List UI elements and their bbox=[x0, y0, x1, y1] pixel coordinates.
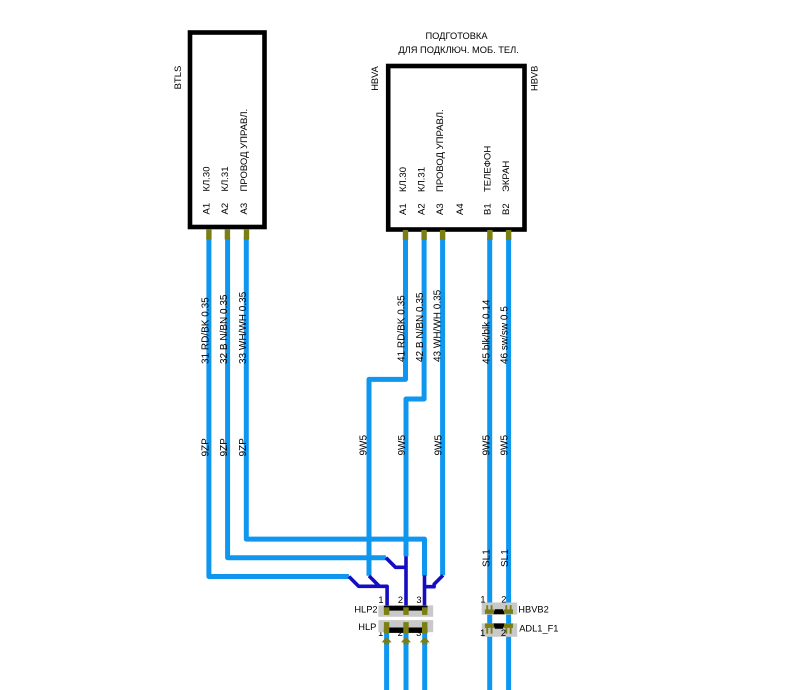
svg-text:ПРОВОД УПРАВЛ.: ПРОВОД УПРАВЛ. bbox=[239, 109, 250, 192]
svg-text:9ZP: 9ZP bbox=[238, 438, 249, 457]
svg-text:2: 2 bbox=[501, 628, 506, 638]
wire below HLP pin 3 bbox=[422, 626, 427, 690]
pin stub HBVA B1 bbox=[487, 230, 492, 240]
svg-text:ПОДГОТОВКА: ПОДГОТОВКА bbox=[425, 31, 488, 41]
svg-text:A3: A3 bbox=[435, 203, 446, 215]
svg-text:31 RD/BK 0.35: 31 RD/BK 0.35 bbox=[200, 297, 211, 364]
pin stub HBVA A2 bbox=[421, 230, 426, 240]
connector HBVB2 body bbox=[482, 603, 518, 615]
arrow HLP pin1 bbox=[382, 638, 392, 643]
svg-text:HLP: HLP bbox=[358, 622, 376, 632]
connector label HLP2 bbox=[354, 595, 558, 634]
wire below HLP pin 2 bbox=[404, 626, 409, 690]
svg-text:HBVB: HBVB bbox=[529, 66, 539, 91]
svg-text:ДЛЯ ПОДКЛЮЧ. МОБ. ТЕЛ.: ДЛЯ ПОДКЛЮЧ. МОБ. ТЕЛ. bbox=[398, 45, 518, 55]
svg-text:1: 1 bbox=[378, 595, 383, 605]
arrow HLP pin3 bbox=[420, 638, 430, 643]
svg-text:33 WH/WH 0.35: 33 WH/WH 0.35 bbox=[238, 291, 249, 364]
svg-text:46 sw/sw 0.5: 46 sw/sw 0.5 bbox=[500, 306, 511, 364]
arrow HLP pin2 bbox=[401, 638, 411, 643]
svg-text:ЭКРАН: ЭКРАН bbox=[501, 161, 512, 192]
svg-text:9ZP: 9ZP bbox=[219, 438, 230, 457]
navy branch wire43 to pin3 bbox=[425, 575, 443, 587]
svg-text:9ZP: 9ZP bbox=[200, 438, 211, 457]
wire 33 from BTLS A3 bbox=[246, 237, 424, 576]
connector ADL1_F1 pads bbox=[485, 623, 513, 633]
svg-text:1: 1 bbox=[480, 628, 485, 638]
svg-text:BTLS: BTLS bbox=[173, 66, 184, 90]
wire 43 from HBVA A3 bbox=[440, 237, 445, 575]
pin stub BTLS A2 bbox=[225, 229, 230, 240]
svg-text:ADL1_F1: ADL1_F1 bbox=[519, 624, 558, 634]
svg-text:2: 2 bbox=[398, 595, 403, 605]
connector HBVB2 pads bbox=[485, 605, 513, 614]
svg-text:1: 1 bbox=[480, 595, 485, 605]
wire label 31 bbox=[200, 289, 511, 567]
navy branch wire41 to pin1 bbox=[369, 576, 379, 586]
svg-text:B2: B2 bbox=[501, 203, 512, 215]
connector HLP2 pads bbox=[384, 607, 428, 615]
pin A1 BTLS label bbox=[202, 109, 513, 215]
svg-text:HBVA: HBVA bbox=[370, 65, 380, 90]
svg-text:9W5: 9W5 bbox=[481, 435, 492, 456]
connector HBVA/HBVB box bbox=[388, 66, 524, 230]
wire 31 from BTLS A1 bbox=[209, 237, 509, 690]
svg-text:КЛ.31: КЛ.31 bbox=[417, 167, 428, 192]
svg-text:A2: A2 bbox=[417, 203, 428, 215]
HLP bottom pin numbers 1 2 3 bbox=[378, 628, 421, 638]
svg-text:A1: A1 bbox=[398, 203, 409, 215]
svg-text:9W5: 9W5 bbox=[359, 435, 370, 456]
svg-text:ПРОВОД УПРАВЛ.: ПРОВОД УПРАВЛ. bbox=[435, 109, 446, 192]
navy joint wire into HLP2 pin1 bbox=[349, 556, 443, 612]
svg-text:9W5: 9W5 bbox=[397, 435, 408, 456]
wire B1 from HBVA bbox=[487, 237, 492, 690]
svg-text:43 WH/WH 0.35: 43 WH/WH 0.35 bbox=[432, 289, 443, 362]
svg-text:ТЕЛЕФОН: ТЕЛЕФОН bbox=[482, 146, 493, 192]
wire 41 from HBVA A1 bbox=[369, 237, 406, 576]
svg-text:КЛ.30: КЛ.30 bbox=[398, 167, 409, 192]
pin stub HBVA A3 bbox=[440, 230, 445, 240]
svg-text:45 blk/blk 0.14: 45 blk/blk 0.14 bbox=[481, 299, 492, 364]
svg-text:2: 2 bbox=[501, 595, 506, 605]
svg-text:КЛ.31: КЛ.31 bbox=[220, 167, 231, 192]
pin stub HBVA B2 bbox=[506, 230, 511, 240]
svg-text:41 RD/BK 0.35: 41 RD/BK 0.35 bbox=[396, 295, 407, 362]
ADL1_F1 bottom pin numbers 1 2 bbox=[480, 628, 506, 638]
pin stub HBVA A1 bbox=[403, 230, 408, 240]
wire 32 from BTLS A2 bbox=[228, 237, 386, 558]
navy vertical wire33 to pin3 bbox=[423, 575, 427, 612]
svg-text:A4: A4 bbox=[455, 203, 466, 215]
connector HLP pads bbox=[382, 622, 430, 644]
svg-text:SL1: SL1 bbox=[481, 549, 492, 567]
svg-text:B1: B1 bbox=[482, 203, 493, 215]
svg-text:9W5: 9W5 bbox=[434, 435, 445, 456]
svg-text:A2: A2 bbox=[220, 203, 231, 215]
wire B2 from HBVA bbox=[506, 237, 511, 690]
pin stub BTLS A3 bbox=[244, 229, 249, 240]
wire 42 from HBVA A2 bbox=[406, 237, 424, 556]
wire below HLP pin 1 bbox=[384, 626, 389, 690]
svg-text:SL1: SL1 bbox=[500, 549, 511, 567]
navy vertical wire42 to pin2 bbox=[404, 556, 408, 612]
connector BTLS box bbox=[190, 33, 265, 228]
pin stub BTLS A1 bbox=[206, 229, 511, 240]
connector HLP body bbox=[378, 620, 433, 632]
svg-text:9W5: 9W5 bbox=[500, 435, 511, 456]
svg-text:КЛ.30: КЛ.30 bbox=[202, 167, 213, 192]
svg-text:HBVB2: HBVB2 bbox=[518, 605, 549, 615]
svg-text:HLP2: HLP2 bbox=[354, 605, 377, 615]
svg-text:42 B N/BN 0.35: 42 B N/BN 0.35 bbox=[415, 292, 426, 362]
connector HLP2 body bbox=[378, 605, 433, 616]
svg-text:A1: A1 bbox=[202, 203, 213, 215]
svg-text:3: 3 bbox=[416, 595, 421, 605]
navy joint wire into HLP2 pin2 bbox=[386, 558, 406, 568]
svg-text:32 B N/BN 0.35: 32 B N/BN 0.35 bbox=[219, 294, 230, 364]
svg-text:A3: A3 bbox=[239, 203, 250, 215]
connector ADL1_F1 body bbox=[482, 623, 518, 636]
